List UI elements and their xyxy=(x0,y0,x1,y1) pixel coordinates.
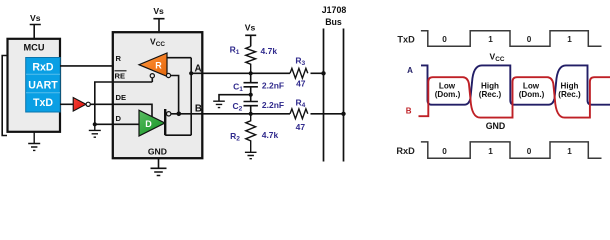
svg-text:RxD: RxD xyxy=(32,62,54,74)
ground (transceiver) xyxy=(151,159,167,176)
RxD waveform xyxy=(421,142,602,158)
svg-text:2.2nF: 2.2nF xyxy=(262,81,284,91)
driver D gate xyxy=(139,110,165,136)
wire inverter to DE pin xyxy=(90,103,113,105)
svg-text:4.7k: 4.7k xyxy=(262,130,279,140)
wire A net xyxy=(191,72,290,74)
svg-text:Vs: Vs xyxy=(153,6,164,16)
TxD waveform xyxy=(421,31,602,47)
bubble driver inverting output xyxy=(167,112,171,116)
bus line 1 xyxy=(323,29,325,162)
pin RE label xyxy=(115,71,127,81)
svg-text:(Dom.): (Dom.) xyxy=(519,90,545,99)
state labels High (Rec.) 1 xyxy=(479,81,502,99)
bus line 2 xyxy=(343,29,345,162)
wire mid node to ground xyxy=(219,95,251,102)
driver output bar xyxy=(164,109,166,135)
resistor R1 xyxy=(230,45,278,74)
svg-text:0: 0 xyxy=(442,147,447,156)
resistor R3 xyxy=(290,56,308,89)
waveform A (blue) xyxy=(421,65,610,104)
junction (B/bus2) xyxy=(341,112,345,116)
wire RE to ground rail xyxy=(95,82,114,124)
wire RxD to R xyxy=(60,65,140,67)
svg-text:47: 47 xyxy=(296,122,306,132)
UART block inside MCU xyxy=(26,58,61,113)
svg-text:1: 1 xyxy=(488,147,493,156)
junction (RE/D ground tie) xyxy=(93,122,97,126)
svg-text:B: B xyxy=(195,103,202,114)
power Vs (pull-up) xyxy=(245,23,256,47)
junction (R1/A) xyxy=(249,71,253,75)
svg-text:4.7k: 4.7k xyxy=(261,46,278,56)
ground (capacitor mid) xyxy=(213,101,225,107)
resistor R2 xyxy=(230,114,278,153)
svg-text:1: 1 xyxy=(567,147,572,156)
capacitor C1 xyxy=(233,73,284,94)
wire TxD to inverter xyxy=(60,103,74,105)
junction (C1/C2 mid) xyxy=(249,93,253,97)
state labels Low (Dom.) 1 xyxy=(435,81,461,99)
svg-text:R: R xyxy=(155,60,162,70)
svg-text:(Dom.): (Dom.) xyxy=(435,90,461,99)
capacitor C2 xyxy=(232,95,284,114)
state labels High (Rec.) 2 xyxy=(558,81,581,99)
svg-text:Bus: Bus xyxy=(325,17,342,27)
cropped bracket at left edge xyxy=(2,56,7,136)
svg-text:(Rec.): (Rec.) xyxy=(558,90,581,99)
wire DE row inside box to driver enable xyxy=(114,104,153,117)
svg-text:0: 0 xyxy=(442,35,447,44)
svg-text:A: A xyxy=(407,66,413,75)
svg-text:(Rec.): (Rec.) xyxy=(479,90,502,99)
MCU box U-MCU xyxy=(8,39,61,132)
transceiver box U1 xyxy=(113,32,203,158)
waveform B (red) xyxy=(419,77,610,117)
svg-text:MCU: MCU xyxy=(24,42,45,52)
power Vs (transceiver) xyxy=(153,6,164,32)
wire D pin row inside box xyxy=(114,123,140,125)
svg-text:2.2nF: 2.2nF xyxy=(262,100,284,110)
wire driver lower output loop xyxy=(165,134,191,136)
svg-text:R: R xyxy=(116,54,122,63)
ground (R2) xyxy=(245,152,257,158)
junction (C2/B/R2) xyxy=(249,112,253,116)
svg-text:B: B xyxy=(406,107,412,116)
wire D pin to ground rail xyxy=(95,123,114,125)
svg-text:GND: GND xyxy=(486,121,506,131)
J1708 Bus label xyxy=(322,5,347,27)
junction (A/bus1) xyxy=(321,71,325,75)
junction (A net tap) xyxy=(189,71,193,75)
wire RE row inside box xyxy=(114,78,153,82)
wire B net xyxy=(171,113,290,115)
svg-text:0: 0 xyxy=(527,35,532,44)
RxD bit labels xyxy=(442,147,572,156)
wire R input from node A xyxy=(167,57,191,59)
svg-text:1: 1 xyxy=(488,35,493,44)
svg-text:Vs: Vs xyxy=(30,13,41,23)
bubble R inverting input xyxy=(166,73,170,77)
wire A/driver vertical xyxy=(190,58,192,136)
receiver R gate xyxy=(139,53,167,76)
state labels Low (Dom.) 2 xyxy=(519,81,545,99)
svg-text:UART: UART xyxy=(28,80,58,92)
ground (MCU) xyxy=(28,132,40,150)
svg-text:GND: GND xyxy=(148,147,167,157)
bubble RE enable xyxy=(150,74,154,78)
wire R inverting input to B net xyxy=(171,76,179,114)
inverter buffer (TxD to DE) xyxy=(73,98,90,112)
svg-text:DE: DE xyxy=(116,93,127,102)
svg-text:0: 0 xyxy=(527,147,532,156)
junction (B net tap) xyxy=(177,112,182,117)
resistor R4 xyxy=(290,97,308,132)
svg-text:Vs: Vs xyxy=(245,23,256,33)
svg-text:TxD: TxD xyxy=(33,97,53,109)
svg-text:47: 47 xyxy=(296,79,306,89)
power Vs (MCU) xyxy=(30,13,41,39)
svg-text:TxD: TxD xyxy=(397,34,415,44)
svg-text:D: D xyxy=(116,114,122,123)
ground (RE/D tie) xyxy=(89,124,101,137)
svg-text:RE: RE xyxy=(115,72,126,81)
TxD bit labels xyxy=(442,35,572,44)
svg-text:RxD: RxD xyxy=(396,146,415,156)
svg-text:J1708: J1708 xyxy=(322,5,347,15)
svg-text:1: 1 xyxy=(567,35,572,44)
svg-text:D: D xyxy=(145,119,152,129)
